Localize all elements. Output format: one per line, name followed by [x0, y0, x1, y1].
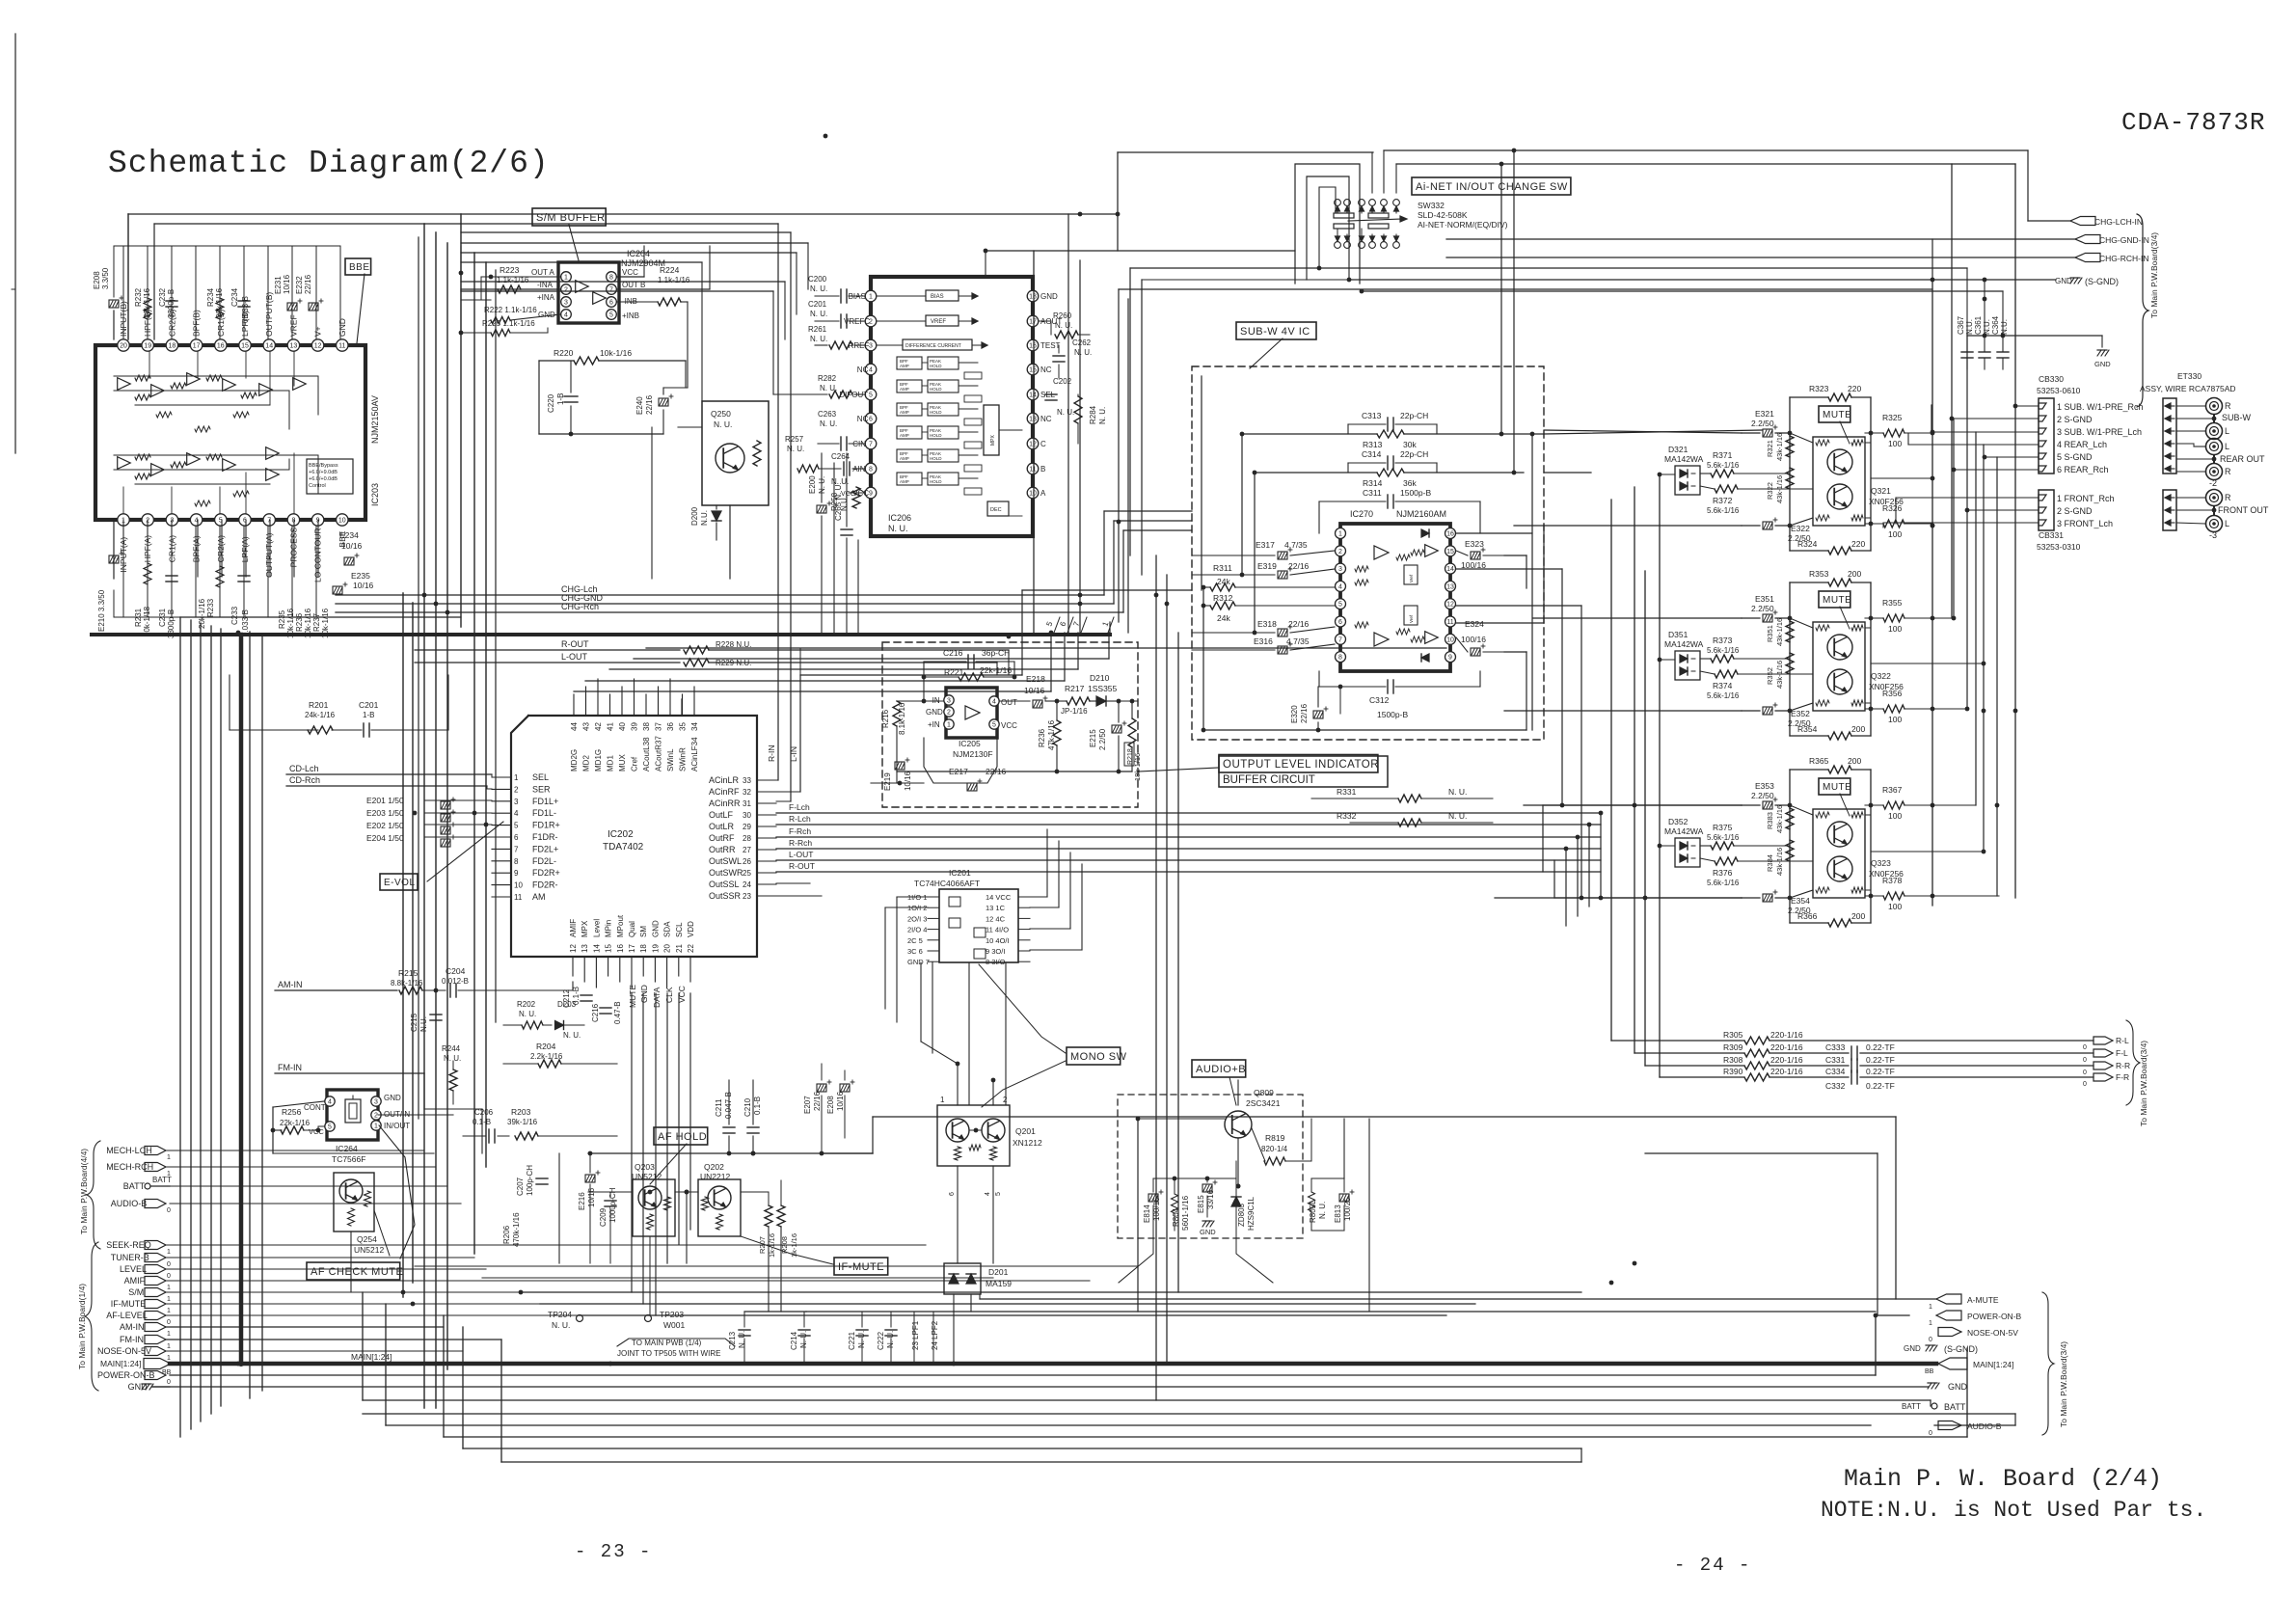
- IC205 amp: [965, 706, 980, 719]
- wire: [1349, 279, 1985, 281]
- svg-text:C311: C311: [1363, 488, 1382, 498]
- svg-text:10/16: 10/16: [1024, 686, 1045, 695]
- transistor Q254: [339, 1179, 363, 1203]
- svg-text:AM-IN: AM-IN: [120, 1322, 145, 1332]
- SW332 contact: [1359, 242, 1365, 249]
- wire CHG-GND-IN: [1446, 238, 2075, 240]
- connector ET331 body: [2163, 490, 2176, 530]
- svg-text:10/16: 10/16: [904, 771, 912, 791]
- junction: [459, 271, 464, 276]
- svg-text:220-1/16: 220-1/16: [1770, 1055, 1803, 1065]
- svg-text:R375: R375: [1713, 823, 1733, 832]
- Q202 emitter resistor: [716, 1214, 723, 1230]
- IC202 pin 10 FD2R-: [492, 884, 511, 886]
- wire: [521, 1291, 1157, 1293]
- svg-text:R220: R220: [554, 348, 574, 358]
- IC203 internal wire: [317, 455, 319, 494]
- svg-text:0: 0: [2083, 1044, 2087, 1051]
- svg-text:IC205: IC205: [959, 739, 981, 748]
- svg-text:C: C: [1040, 440, 1046, 448]
- svg-text:N. U.: N. U.: [1098, 407, 1107, 424]
- IC205 pin 1: [944, 719, 954, 729]
- wire: [122, 527, 124, 617]
- wire: [539, 360, 574, 362]
- connector MAIN right: [1938, 1358, 1967, 1369]
- wire: [1996, 457, 1998, 896]
- svg-text:42: 42: [594, 722, 603, 731]
- svg-text:MD1: MD1: [607, 755, 615, 771]
- wire VCC column: [678, 993, 680, 1244]
- junction: [1236, 1184, 1241, 1189]
- IC206 pin 10 A: [1027, 487, 1039, 499]
- svg-text:E217: E217: [949, 767, 968, 776]
- svg-text:W001: W001: [663, 1320, 685, 1330]
- svg-text:GND: GND: [1200, 1228, 1216, 1236]
- svg-text:BBE/Bypass: BBE/Bypass: [309, 463, 338, 469]
- wire: [1542, 805, 1544, 872]
- junction: [1931, 616, 1935, 621]
- transistor Q202 body: [698, 1179, 741, 1236]
- ET330 pin arrow: [2165, 468, 2174, 470]
- connector ET330 body: [2163, 398, 2176, 474]
- wire: [482, 1277, 993, 1279]
- wire: [1634, 487, 1635, 1053]
- leader: [379, 1125, 415, 1259]
- IC206 pin 8 AIN: [865, 463, 877, 474]
- svg-text:POWER-ON-B: POWER-ON-B: [97, 1370, 155, 1380]
- wire: [267, 246, 269, 338]
- leader: [979, 964, 1066, 1053]
- svg-text:R203: R203: [511, 1107, 531, 1117]
- AF HOLD leader: [650, 1144, 687, 1184]
- wire bus thick horizontal: [92, 633, 1110, 636]
- svg-text:LPF(A): LPF(A): [240, 536, 250, 562]
- svg-text:E210 3.3/50: E210 3.3/50: [97, 589, 106, 632]
- wire: [190, 620, 192, 1429]
- wire: [461, 242, 808, 244]
- svg-text:8: 8: [291, 518, 295, 525]
- wire: [1871, 851, 1984, 853]
- leader: [1229, 1077, 1236, 1105]
- IC206 small box: [964, 372, 982, 379]
- svg-text:7: 7: [514, 845, 519, 853]
- svg-text:R365: R365: [1809, 756, 1829, 766]
- svg-text:3 SUB. W/1-PRE_Lch: 3 SUB. W/1-PRE_Lch: [2057, 427, 2142, 437]
- wire: [540, 1303, 1475, 1305]
- svg-text:200: 200: [1851, 911, 1865, 921]
- wire: [1371, 152, 1373, 193]
- wire CHG-GND: [336, 603, 1114, 605]
- brace: [85, 1242, 98, 1391]
- svg-text:7: 7: [609, 287, 613, 294]
- svg-text:15: 15: [241, 343, 249, 350]
- svg-text:12: 12: [1446, 602, 1454, 609]
- svg-text:MA142WA: MA142WA: [1664, 454, 1704, 464]
- svg-text:-2: -2: [2209, 478, 2217, 488]
- svg-text:27: 27: [743, 846, 751, 854]
- wire: [897, 896, 928, 898]
- svg-text:220: 220: [1851, 539, 1865, 549]
- svg-text:R282: R282: [818, 374, 837, 383]
- svg-text:17: 17: [1029, 319, 1037, 326]
- svg-text:N.U.: N.U.: [1965, 319, 1974, 335]
- svg-text:Q202: Q202: [704, 1162, 724, 1172]
- wire: [1588, 825, 1590, 907]
- svg-text:Ai-NET IN/OUT CHANGE SW: Ai-NET IN/OUT CHANGE SW: [1416, 181, 1568, 193]
- IC206 peak hold box: [928, 380, 959, 392]
- CB331 pin 1 FRONT_Rch: [2039, 495, 2046, 501]
- svg-text:22/16: 22/16: [1288, 619, 1310, 629]
- wire: [461, 290, 773, 292]
- IC202 top pin 34: [693, 687, 695, 716]
- svg-text:8 3I/O: 8 3I/O: [986, 958, 1006, 966]
- wire: [1030, 907, 1059, 908]
- svg-text:VCC: VCC: [622, 268, 638, 277]
- wire: [171, 246, 173, 338]
- svg-text:DEC: DEC: [990, 507, 1002, 513]
- svg-text:FD1R+: FD1R+: [532, 821, 560, 830]
- wire: [1790, 805, 1813, 815]
- IC203 pin 8: [287, 514, 299, 526]
- svg-text:E323: E323: [1465, 539, 1484, 549]
- IC203 pin 19: [142, 339, 153, 351]
- junction: [685, 1190, 689, 1195]
- svg-text:R353: R353: [1809, 569, 1829, 579]
- svg-text:R217: R217: [1065, 684, 1085, 693]
- svg-text:5: 5: [1338, 602, 1342, 609]
- svg-text:UN2212: UN2212: [700, 1172, 730, 1181]
- svg-text:R233: R233: [206, 598, 215, 617]
- Q201 res1: [955, 1147, 961, 1160]
- junction: [1078, 593, 1083, 598]
- svg-text:2.2k-1/16: 2.2k-1/16: [530, 1052, 563, 1061]
- svg-text:FD2L+: FD2L+: [532, 844, 558, 853]
- IC203 pin 7: [263, 514, 275, 526]
- svg-text:N. U.: N. U.: [810, 284, 827, 293]
- scan edge line: [14, 34, 16, 453]
- IC206 BPF box: [897, 357, 922, 369]
- wire Q322 block: [1789, 582, 1791, 736]
- svg-text:C265 N. U.: C265 N. U.: [834, 482, 843, 521]
- junction: [648, 1190, 653, 1195]
- SW332 contact: [1335, 242, 1341, 249]
- IC270 pin 11: [1445, 616, 1456, 627]
- transistor Q323 npn2: [1827, 856, 1852, 881]
- IC202 bottom pin 19 GND: [654, 957, 656, 982]
- svg-text:Q250: Q250: [711, 409, 731, 419]
- svg-text:To Main P.W.Board(3/4): To Main P.W.Board(3/4): [2149, 232, 2159, 318]
- wire CHG-Lch: [336, 594, 1104, 596]
- svg-text:MPin: MPin: [605, 920, 613, 937]
- wire: [1104, 510, 1192, 512]
- svg-text:LEVEL: LEVEL: [120, 1264, 147, 1274]
- RCA jack SUB-W L: [2206, 423, 2223, 440]
- svg-text:9: 9: [514, 869, 519, 878]
- svg-text:1.1k-1/16: 1.1k-1/16: [658, 276, 690, 284]
- svg-text:R204: R204: [536, 1042, 556, 1051]
- wire: [402, 593, 404, 1297]
- wire: [920, 962, 922, 1042]
- IC202 pin 11 AM: [492, 896, 511, 898]
- wire: [195, 246, 197, 338]
- wire CLK column: [666, 993, 668, 1263]
- wire: [922, 454, 928, 456]
- IF-MUTE label: [834, 1258, 888, 1275]
- wire: [122, 520, 124, 555]
- svg-text:Q254: Q254: [357, 1234, 377, 1244]
- IC270 amp: [1425, 632, 1439, 644]
- wire VCC stub: [849, 492, 865, 494]
- IC203 pin 6: [239, 514, 251, 526]
- svg-text:ACinLF34: ACinLF34: [690, 737, 699, 771]
- SW332 contact: [1381, 200, 1388, 206]
- svg-text:2 S-GND: 2 S-GND: [2057, 415, 2093, 424]
- resistor R390 row F-R: [1660, 1076, 1743, 1078]
- IC205 pin 3: [944, 695, 954, 705]
- svg-text:6: 6: [609, 300, 613, 307]
- svg-text:E203 1/50: E203 1/50: [366, 808, 404, 818]
- svg-text:MUX: MUX: [618, 754, 627, 771]
- IC204 pin 3: [561, 297, 572, 308]
- svg-text:17: 17: [628, 944, 636, 953]
- svg-text:E813: E813: [1334, 1204, 1342, 1223]
- svg-text:E201 1/50: E201 1/50: [366, 796, 404, 805]
- svg-text:R232: R232: [134, 287, 143, 307]
- svg-text:To Main P.W.Board(3/4): To Main P.W.Board(3/4): [2139, 1041, 2148, 1126]
- IC264 TC7566F body: [327, 1090, 378, 1140]
- wire: [315, 527, 317, 617]
- resistor R353 200: [1790, 582, 1828, 583]
- resistor R324 220: [1790, 550, 1828, 552]
- resistor R352 43k-1/16: [1786, 653, 1794, 674]
- svg-text:17: 17: [193, 343, 201, 350]
- wire: [435, 232, 437, 1408]
- svg-text:25: 25: [743, 869, 751, 878]
- svg-text:22/16: 22/16: [1300, 703, 1309, 723]
- IC206 peak hold box: [928, 449, 959, 462]
- wire: [2027, 150, 2029, 221]
- resistor R372 5.6k-1/16: [1715, 485, 1738, 493]
- svg-text:1 SUB. W/1-PRE_Rch: 1 SUB. W/1-PRE_Rch: [2057, 402, 2144, 412]
- svg-text:1: 1: [167, 1296, 171, 1303]
- svg-text:(S-GND): (S-GND): [2085, 277, 2119, 286]
- svg-text:5: 5: [995, 1192, 1002, 1196]
- IC206 pin 18 GND: [1027, 290, 1039, 302]
- IC206 body: [871, 277, 1033, 536]
- IC203 internal wire: [135, 483, 270, 485]
- wire: [1544, 472, 1591, 474]
- svg-text:VREF: VREF: [931, 319, 946, 325]
- svg-text:R355: R355: [1882, 598, 1903, 608]
- svg-text:TP203: TP203: [660, 1310, 684, 1319]
- resistor R383 43k-1/16: [1786, 808, 1794, 829]
- svg-text:38: 38: [642, 722, 651, 731]
- IC203 internal amp: [151, 464, 165, 476]
- wire: [180, 616, 461, 618]
- svg-text:22/16: 22/16: [813, 1091, 822, 1111]
- IC204 amp B: [593, 292, 607, 305]
- svg-text:220-1/16: 220-1/16: [1770, 1067, 1803, 1076]
- IC206 BPF box: [897, 380, 922, 392]
- svg-text:Q321: Q321: [1871, 486, 1891, 496]
- svg-text:IF-MUTE: IF-MUTE: [838, 1261, 884, 1273]
- AUDIO+B label: [1192, 1060, 1246, 1077]
- svg-text:11: 11: [514, 893, 523, 902]
- svg-text:C361: C361: [1974, 315, 1983, 335]
- svg-text:C232: C232: [158, 287, 167, 307]
- IC203 internal resistor: [233, 491, 249, 497]
- svg-text:MUTE: MUTE: [1823, 595, 1851, 606]
- wire: [261, 635, 263, 1391]
- wire: [521, 1291, 1581, 1293]
- svg-text:DATA: DATA: [652, 987, 662, 1008]
- svg-text:GND: GND: [926, 708, 943, 717]
- connector CB331 body: [2039, 490, 2054, 530]
- junction: [446, 610, 450, 615]
- svg-text:1: 1: [167, 1308, 171, 1314]
- svg-text:0.22-TF: 0.22-TF: [1866, 1042, 1895, 1052]
- svg-text:MD2: MD2: [582, 755, 591, 771]
- wire: [1030, 896, 1047, 898]
- svg-text:Q201: Q201: [1015, 1126, 1036, 1136]
- svg-text:Q203: Q203: [635, 1162, 655, 1172]
- svg-text:8: 8: [869, 467, 873, 474]
- ET330 pin arrow: [2165, 418, 2174, 420]
- svg-text:VCC: VCC: [841, 491, 855, 498]
- svg-text:C202: C202: [1053, 377, 1072, 386]
- wire: [609, 668, 1078, 670]
- svg-text:C314: C314: [1362, 449, 1382, 459]
- IC206 small box: [964, 419, 982, 425]
- svg-text:GND: GND: [338, 318, 347, 337]
- junction: [401, 1290, 406, 1295]
- wire bus: [170, 1374, 1876, 1376]
- SW332 contact: [1393, 242, 1400, 249]
- diode D201 a: [949, 1274, 959, 1284]
- svg-text:C263: C263: [818, 410, 837, 419]
- IC206 pin 17 AOUT: [1027, 315, 1039, 327]
- svg-text:R322: R322: [1766, 482, 1774, 500]
- IC270 internal resistor: [1396, 629, 1410, 635]
- wire MUTE column: [631, 993, 633, 1292]
- transistor Q322 npn1: [1827, 635, 1852, 660]
- svg-text:E208: E208: [826, 1096, 835, 1114]
- IC202 bottom pin 18 SM: [642, 957, 644, 976]
- transistor Q201 npn2: [982, 1119, 1005, 1142]
- svg-text:2: 2: [947, 710, 951, 717]
- wire: [339, 246, 341, 338]
- wire: [2176, 405, 2205, 407]
- wire: [709, 662, 997, 663]
- IC204 pin 6: [607, 297, 617, 308]
- IC206 pin 12 C: [1027, 438, 1039, 449]
- svg-text:N. U.: N. U.: [810, 310, 827, 318]
- junction: [473, 811, 477, 816]
- wire: [424, 1108, 482, 1110]
- svg-text:23 LPF1: 23 LPF1: [911, 1320, 920, 1350]
- svg-text:1000p-CH: 1000p-CH: [608, 1187, 617, 1223]
- svg-text:19: 19: [651, 944, 660, 953]
- leader: [1138, 768, 1219, 771]
- svg-text:BBE: BBE: [349, 262, 370, 273]
- svg-text:16: 16: [217, 343, 225, 350]
- IC203 internal resistor: [241, 392, 257, 398]
- svg-text:ET330: ET330: [2177, 371, 2201, 381]
- IC204 pin 4: [561, 310, 572, 320]
- svg-text:43k-1/16: 43k-1/16: [1775, 805, 1784, 833]
- svg-text:N. U.: N. U.: [1057, 408, 1074, 417]
- svg-text:C233: C233: [230, 606, 239, 625]
- OUTPUT LEVEL INDICATOR label: [1219, 755, 1378, 773]
- wire: [166, 1291, 521, 1293]
- wire: [922, 385, 928, 387]
- svg-text:E200: E200: [808, 475, 817, 494]
- svg-text:POWER-ON-B: POWER-ON-B: [1967, 1312, 2022, 1321]
- svg-text:C201: C201: [359, 700, 379, 710]
- svg-text:5.6k-1/16: 5.6k-1/16: [1707, 833, 1740, 842]
- svg-text:22/16: 22/16: [1288, 561, 1310, 571]
- svg-text:E352: E352: [1791, 709, 1810, 718]
- svg-text:AMP: AMP: [900, 387, 909, 392]
- resistor R218 18k-1/16: [1128, 718, 1136, 747]
- MUTE label: [1819, 406, 1850, 422]
- wire: [1504, 555, 1526, 556]
- junction: [820, 1151, 824, 1156]
- connector R-L: [2093, 1037, 2113, 1044]
- svg-text:C214: C214: [790, 1331, 798, 1350]
- junction: [984, 249, 988, 254]
- wire R-OUT: [776, 871, 1601, 873]
- svg-text:2.2/50: 2.2/50: [1788, 718, 1811, 728]
- wire: [171, 527, 173, 617]
- svg-text:C211: C211: [715, 1098, 723, 1117]
- svg-text:C200: C200: [808, 275, 827, 284]
- wire: [1951, 164, 1953, 618]
- dot: [238, 1361, 244, 1367]
- IC203 pin 18: [166, 339, 177, 351]
- svg-text:12: 12: [314, 343, 322, 350]
- svg-text:S/M: S/M: [128, 1287, 144, 1297]
- Q202 left resistor: [702, 1197, 709, 1210]
- svg-text:R331: R331: [1337, 787, 1357, 797]
- svg-text:3: 3: [374, 1099, 378, 1106]
- svg-text:1: 1: [167, 1331, 171, 1338]
- E-VOL label: [380, 874, 418, 890]
- svg-text:NC: NC: [857, 415, 869, 423]
- leader: [1840, 794, 1850, 816]
- svg-text:1: 1: [1929, 1320, 1932, 1327]
- junction: [1117, 520, 1121, 525]
- svg-text:43: 43: [582, 722, 591, 731]
- IC206 pin 2 VREFC: [865, 315, 877, 327]
- svg-text:AF-LEVEL: AF-LEVEL: [106, 1311, 148, 1320]
- svg-text:3: 3: [564, 300, 568, 307]
- wire: [1526, 652, 1527, 730]
- svg-text:ACinRR: ACinRR: [709, 798, 741, 808]
- svg-text:R-L: R-L: [2116, 1036, 2129, 1045]
- IC206 small box: [964, 488, 982, 495]
- IC202 pin 6 F1DR-: [492, 836, 511, 838]
- svg-text:20: 20: [120, 343, 127, 350]
- svg-text:C334: C334: [1825, 1067, 1846, 1076]
- wire: [269, 520, 271, 577]
- wire: [1953, 419, 1955, 618]
- svg-text:A-MUTE: A-MUTE: [1967, 1295, 1999, 1305]
- svg-text:16: 16: [1446, 531, 1454, 538]
- IC206 BPF box: [897, 449, 922, 462]
- wire: [219, 527, 221, 617]
- wire: [197, 520, 199, 577]
